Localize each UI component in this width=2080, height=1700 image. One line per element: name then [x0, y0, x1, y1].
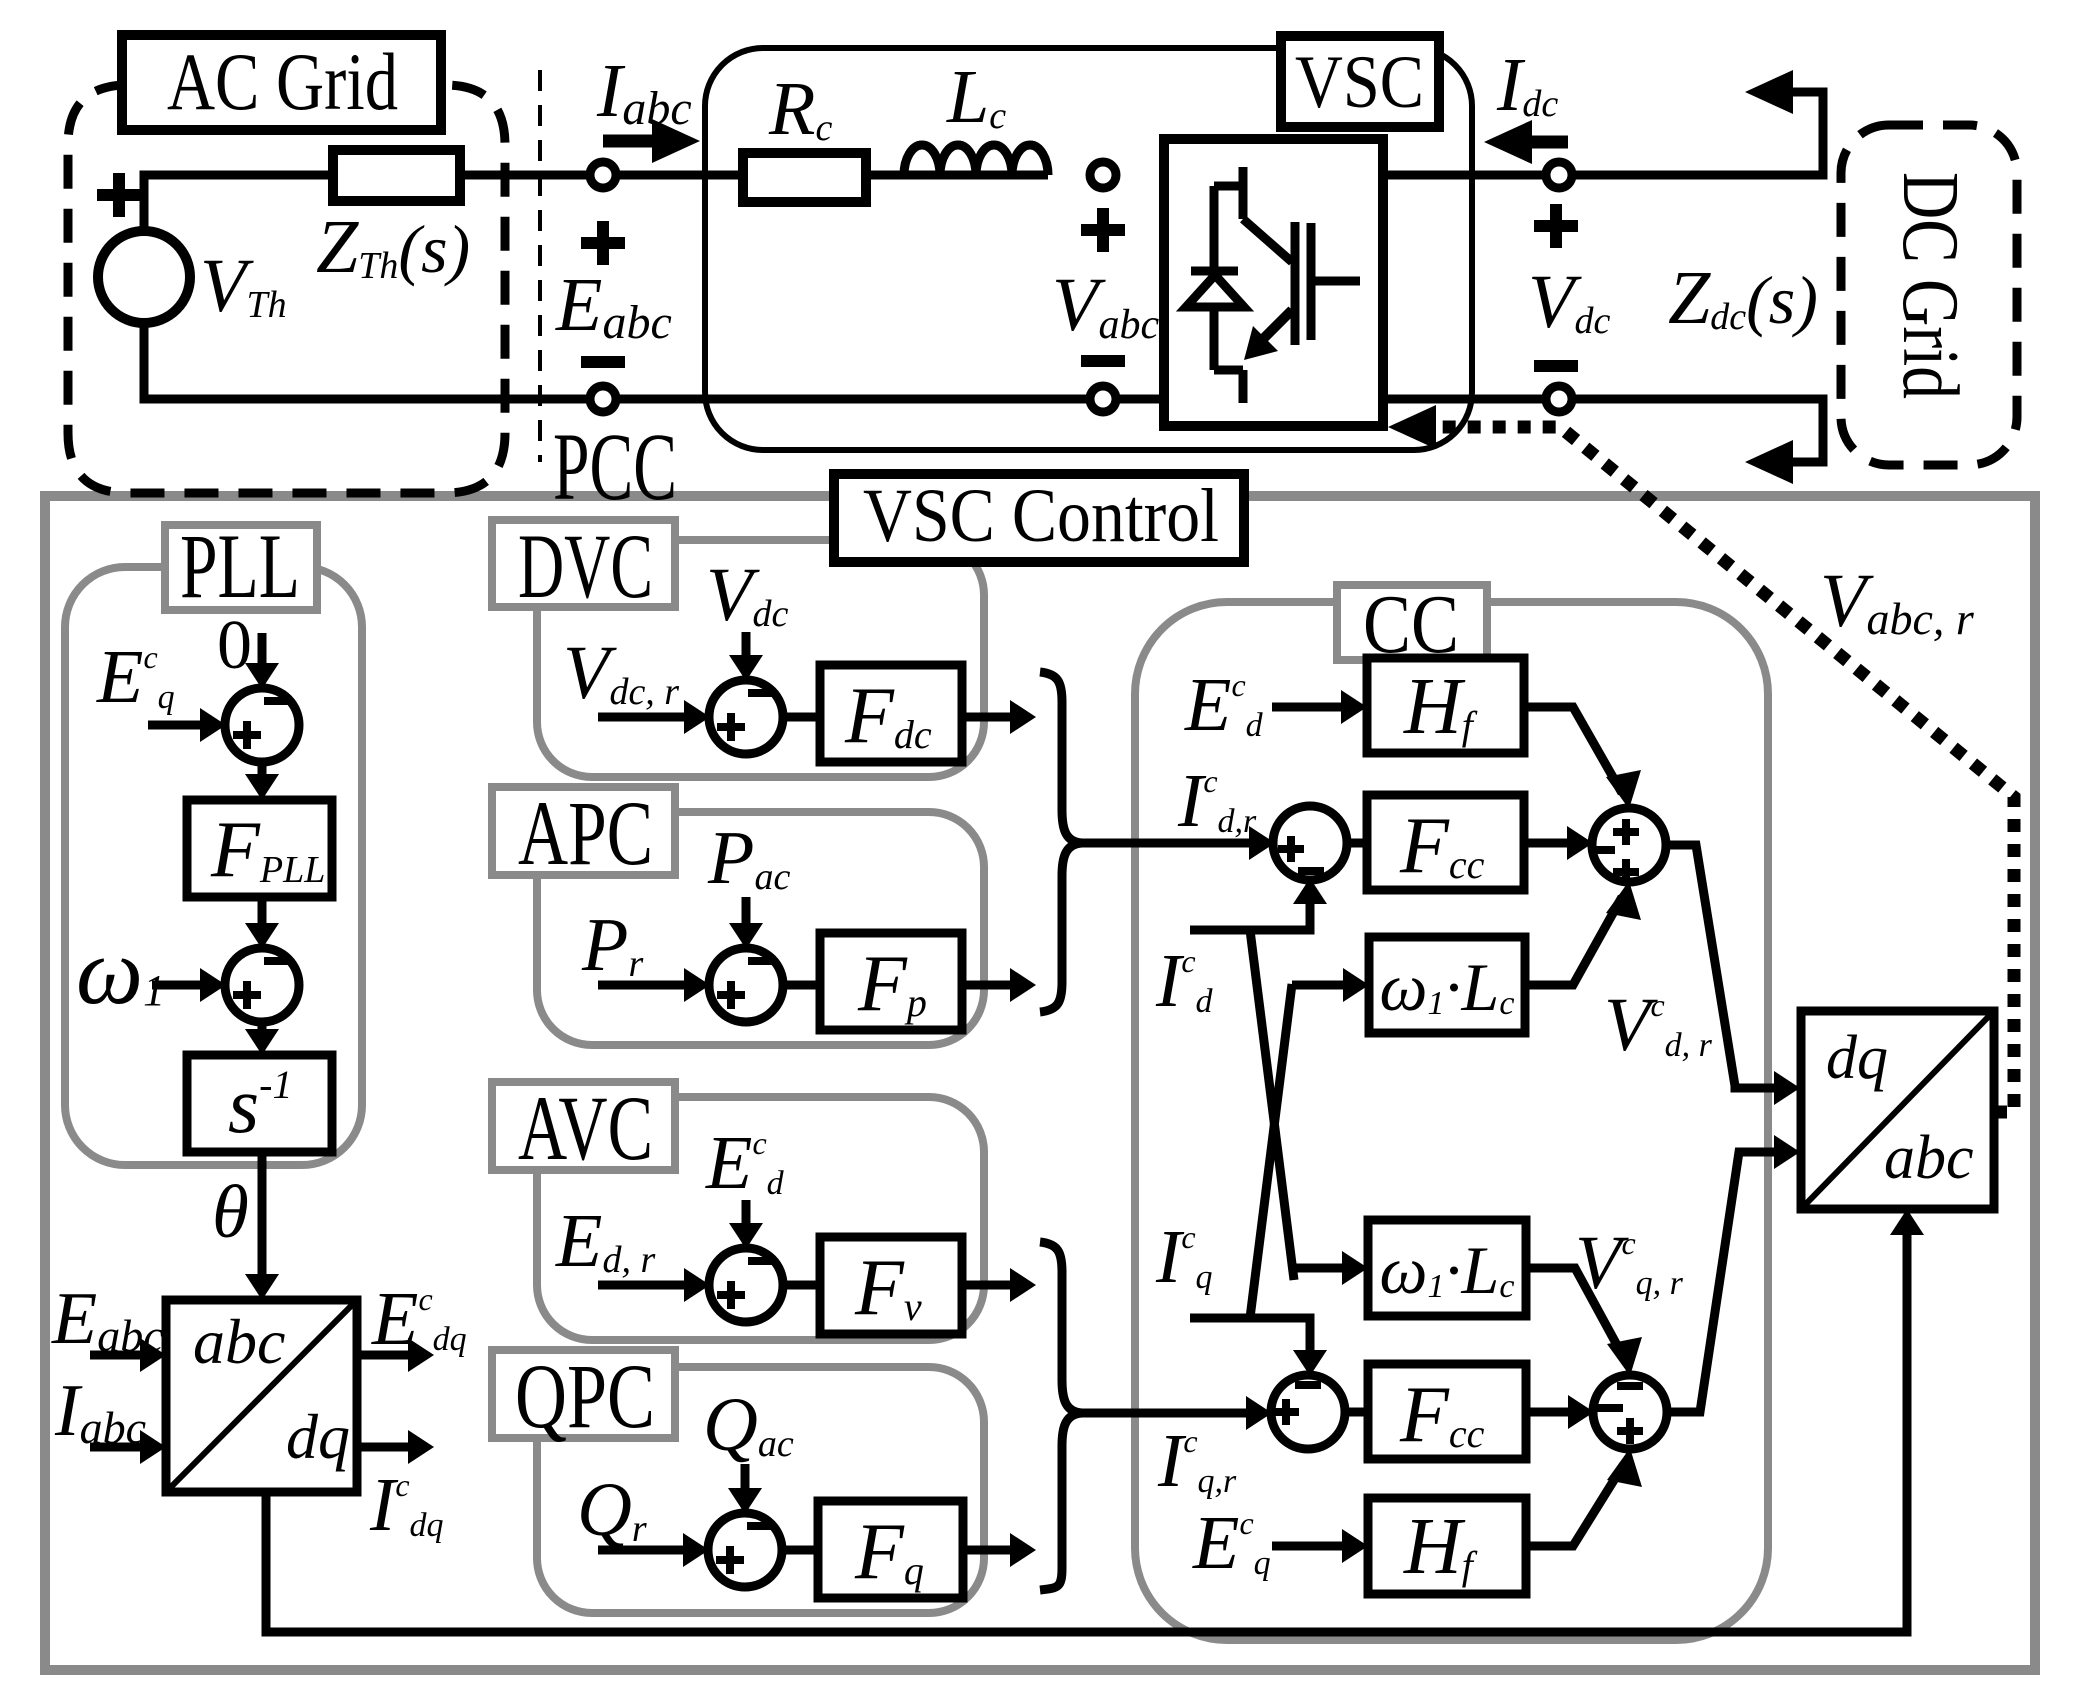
wire Ed,r in — [598, 1281, 696, 1290]
wire Hf q to q out summer — [1526, 1464, 1624, 1546]
wire Vdc,r in — [598, 713, 696, 722]
wire Fv out — [962, 1281, 1022, 1290]
block Fq — [818, 1501, 963, 1598]
QPC label box — [492, 1350, 675, 1438]
block Fcc d-axis — [1367, 795, 1524, 890]
wire sum2 to s-1 — [258, 1021, 267, 1042]
wire: DC bottom — [1383, 399, 1823, 462]
node Vdc terminal top — [1546, 162, 1572, 188]
diode (anti-parallel) — [1191, 267, 1238, 276]
summer PLL 2 — [225, 948, 299, 1022]
wire: AC grid bottom — [144, 323, 1164, 399]
CC label box — [1337, 585, 1487, 660]
wire Icdq out — [357, 1443, 420, 1452]
summer DVC — [709, 680, 783, 754]
block Hf q-axis — [1368, 1498, 1526, 1594]
wire sum to Fp — [782, 981, 820, 990]
svg-text:dq: dq — [286, 1401, 350, 1472]
brace DVC+APC outputs — [1040, 672, 1082, 1012]
wire sum to Fq — [781, 1546, 818, 1555]
converter (VSC) box — [1164, 139, 1383, 426]
summer QPC — [708, 1513, 782, 1587]
svg-text:DC Grid: DC Grid — [1886, 172, 1974, 399]
wire Icd stub and feedback up into d summer — [1190, 891, 1310, 930]
resistor ZTh(s) — [333, 150, 460, 201]
wire theta to abc/dq — [258, 1152, 267, 1287]
wire Fq out — [963, 1546, 1022, 1555]
wire to Fcc d — [1346, 839, 1367, 848]
svg-text:VSC: VSC — [1295, 41, 1424, 124]
wire Vdc down — [742, 632, 751, 668]
wire FPLL to sum2 — [258, 897, 267, 936]
summer CC d error — [1273, 806, 1347, 880]
wire w1Lc q to q out summer — [1526, 1268, 1624, 1358]
wire Qac down — [741, 1464, 750, 1501]
wire Icq stub down into q summer — [1190, 1318, 1310, 1363]
wire Iabc in — [90, 1443, 152, 1452]
DVC label box — [492, 520, 675, 607]
svg-text:abc: abc — [193, 1306, 285, 1377]
wire Ecdq out — [357, 1351, 420, 1360]
arrow Idc — [1520, 136, 1568, 149]
wire sum to Fv — [782, 1281, 820, 1290]
wire 0 to sum — [258, 633, 267, 676]
polarity + (Eabc) — [581, 221, 625, 265]
block s^-1 — [187, 1055, 332, 1152]
svg-text:DVC: DVC — [518, 515, 653, 617]
PLL label box — [165, 525, 317, 610]
block Fv — [820, 1237, 962, 1334]
wire Fdc out — [962, 713, 1022, 722]
wire Fp out — [962, 981, 1022, 990]
DVC group enclosure — [537, 540, 984, 777]
VSC enclosure rounded — [705, 48, 1472, 450]
PCC boundary dashed line — [538, 70, 542, 462]
PLL group enclosure — [65, 567, 362, 1165]
svg-text:APC: APC — [518, 782, 653, 884]
block Hf d-axis — [1367, 658, 1524, 753]
polarity + (Vabc) — [1081, 208, 1125, 252]
wire omega1 to sum2 — [152, 981, 212, 990]
summer CC q output — [1593, 1375, 1667, 1449]
wire Pac down — [742, 897, 751, 936]
wire to Fcc q — [1344, 1408, 1368, 1417]
node Eabc terminal top — [590, 162, 616, 188]
summer AVC — [709, 1248, 783, 1322]
wire Eabc in — [90, 1351, 152, 1360]
polarity - (Vdc) — [1534, 360, 1578, 372]
polarity - (Eabc) — [581, 356, 625, 368]
node Vabc terminal bottom — [1090, 386, 1116, 412]
APC group enclosure — [537, 812, 984, 1045]
block Fp — [820, 933, 962, 1030]
summer APC — [709, 948, 783, 1022]
svg-text:QPC: QPC — [515, 1345, 655, 1447]
wire theta feedback to dq/abc — [266, 1222, 1907, 1632]
wire Icd,r reference — [1082, 839, 1261, 848]
wire Ecq to sum — [148, 721, 212, 730]
VSC label box — [1281, 36, 1439, 127]
wire Hf to d summer — [1524, 707, 1622, 793]
wire sum to FPLL — [258, 761, 267, 787]
wire q output to dq/abc — [1666, 1152, 1786, 1412]
label + (VTh) — [97, 173, 141, 217]
source VTh — [98, 231, 190, 323]
wire: DC top — [1383, 92, 1823, 175]
inductor Lc — [904, 145, 1048, 175]
resistor Rc — [743, 153, 866, 202]
svg-text:θ: θ — [212, 1171, 249, 1254]
AVC label box — [492, 1082, 675, 1170]
IGBT collector lead — [1214, 167, 1292, 403]
block FPLL — [187, 800, 332, 897]
svg-text:ω1·Lc: ω1·Lc — [1380, 949, 1515, 1025]
AC Grid label box — [122, 35, 441, 130]
VSC Control label box — [834, 474, 1244, 562]
DC Grid dashed enclosure — [1841, 125, 2017, 465]
svg-text:AVC: AVC — [518, 1077, 653, 1179]
wire: AC grid top — [144, 175, 1048, 231]
brace AVC+QPC outputs — [1040, 1242, 1082, 1590]
wire Ecq to Hf q — [1272, 1542, 1354, 1551]
summer PLL 1 — [225, 688, 299, 762]
CC group enclosure — [1135, 602, 1768, 1640]
wire Icd cross to lower w1Lc — [1250, 930, 1354, 1280]
arrow Iabc — [603, 135, 655, 148]
summer CC d output — [1592, 808, 1666, 882]
node Vabc terminal top — [1090, 162, 1116, 188]
APC label box — [492, 787, 675, 875]
wire Icq,r reference — [1082, 1409, 1258, 1418]
wire d output to dq/abc — [1665, 845, 1786, 1088]
summer CC q error — [1271, 1375, 1345, 1449]
svg-text:VSC Control: VSC Control — [863, 474, 1219, 558]
block w1Lc q-axis — [1368, 1220, 1526, 1316]
dotted Vabc,r feedback path — [1430, 427, 2014, 1112]
transform dq/abc block — [1801, 1011, 1994, 1209]
wire Qr in — [598, 1546, 695, 1555]
wire w1Lc to d out summer — [1525, 897, 1622, 985]
wire sum to Fdc — [782, 713, 820, 722]
transform abc/dq block — [166, 1300, 357, 1492]
VSC Control outer box — [45, 496, 2035, 1670]
node Eabc terminal bottom — [590, 386, 616, 412]
IGBT emitter with arrow — [1254, 310, 1292, 348]
AVC group enclosure — [537, 1097, 984, 1340]
wire Icq cross to upper w1Lc — [1250, 984, 1355, 1318]
node Vdc terminal bottom — [1546, 386, 1572, 412]
wire Fcc to d out summer — [1524, 839, 1579, 848]
svg-text:abc: abc — [1884, 1124, 1974, 1192]
polarity + (Vdc) — [1534, 204, 1578, 248]
wire Pr in — [598, 981, 696, 990]
polarity - (Vabc) — [1081, 355, 1125, 367]
svg-text:PLL: PLL — [180, 515, 300, 617]
wire Ecd down — [742, 1200, 751, 1236]
block w1Lc d-axis — [1369, 937, 1525, 1033]
wire Ecd to Hf — [1272, 703, 1353, 712]
AC Grid dashed enclosure — [68, 85, 505, 493]
QPC group enclosure — [537, 1367, 984, 1613]
svg-text:dq: dq — [1826, 1024, 1888, 1092]
svg-text:ω1·Lc: ω1·Lc — [1380, 1232, 1515, 1308]
svg-text:0: 0 — [217, 607, 252, 684]
wire Fcc q to q out summer — [1526, 1408, 1580, 1417]
block Fcc q-axis — [1368, 1364, 1526, 1459]
IGBT gate bars — [1295, 222, 1360, 345]
block Fdc — [820, 665, 962, 762]
svg-text:PCC: PCC — [553, 413, 677, 520]
svg-text:AC Grid: AC Grid — [167, 36, 398, 127]
